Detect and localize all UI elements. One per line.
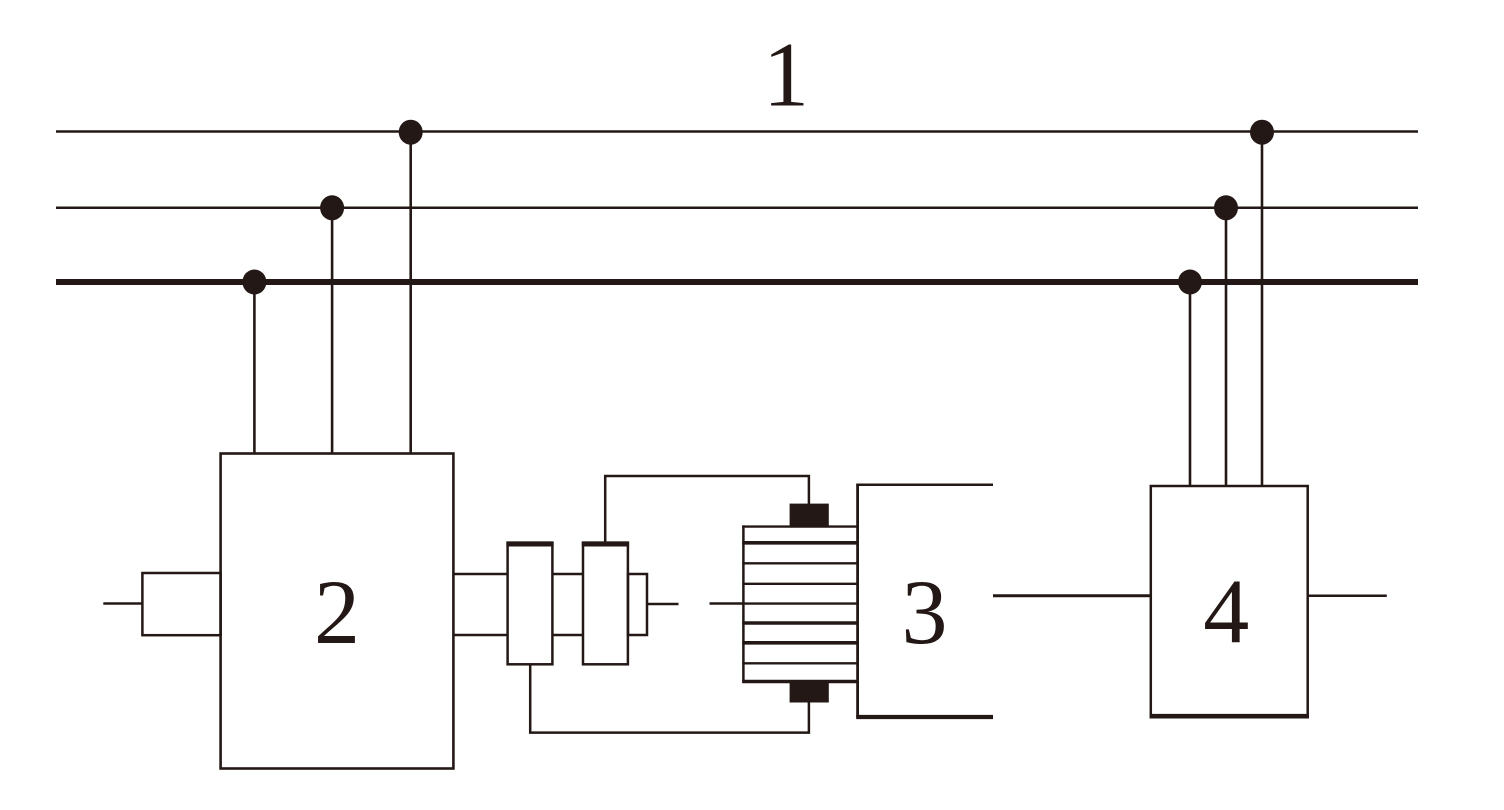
svg-text:4: 4	[1203, 561, 1249, 663]
svg-text:1: 1	[763, 24, 809, 126]
svg-text:2: 2	[314, 561, 360, 663]
svg-text:3: 3	[902, 561, 948, 663]
